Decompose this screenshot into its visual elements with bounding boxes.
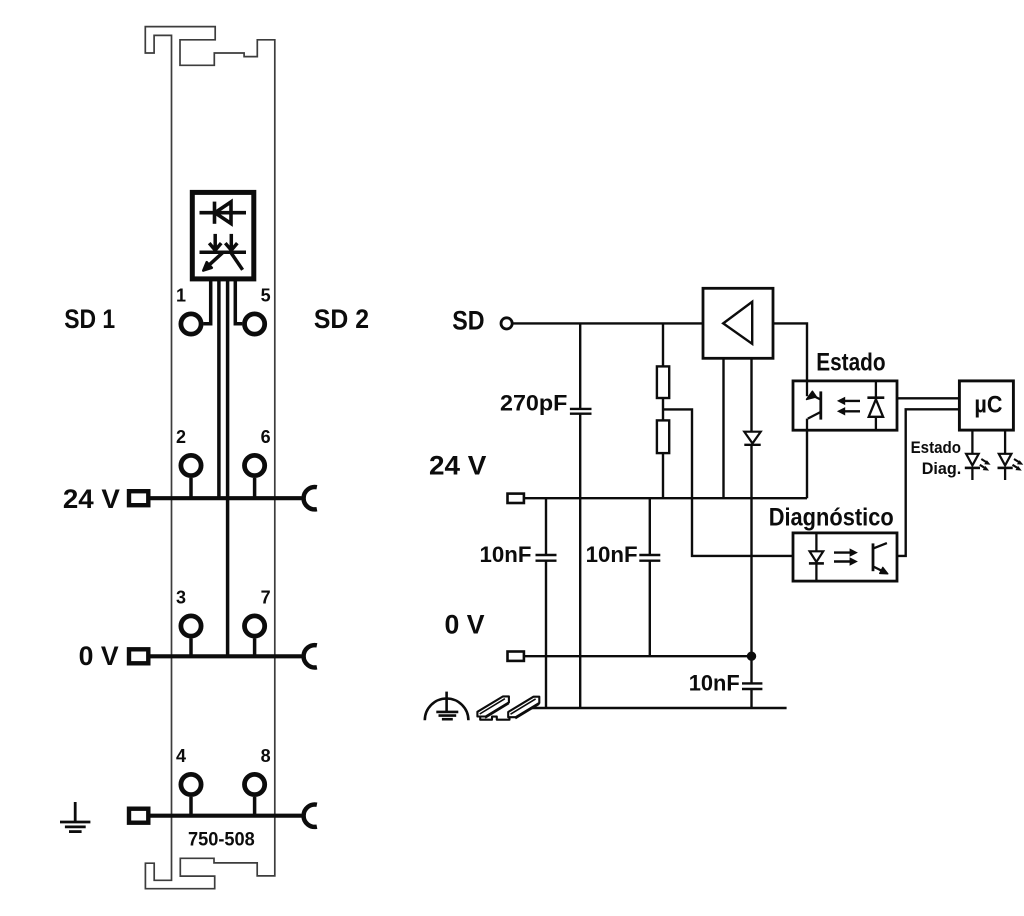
svg-text:10nF: 10nF [689,671,740,696]
Diagnostico light arrows [834,548,858,565]
svg-text:5: 5 [261,286,271,306]
op-amp triangle [723,302,752,344]
junction dot [747,652,756,661]
resistor R2 [657,420,669,453]
microcontroller uC box [959,381,1013,430]
svg-text:2: 2 [176,427,186,447]
capacitor 270pF [570,409,592,414]
0V rail on module [129,645,317,667]
op-amp U2 box [703,288,773,358]
optocoupler Estado box [793,381,897,430]
node SD input terminal [501,318,512,329]
svg-text:Estado: Estado [816,349,885,377]
capacitor 10nF#2 [639,555,660,561]
connector square 0V [508,652,524,661]
svg-text:µC: µC [974,391,1002,418]
terminal 2 [181,455,201,475]
wire 10nF#2 branch [649,498,651,656]
wire 270pF branch [579,323,581,708]
0V rail right [520,655,752,657]
LED Estado indicator [965,430,980,480]
surge suppressor box U1 [192,192,254,279]
svg-text:7: 7 [261,588,271,608]
wire Estado to uC [897,397,959,399]
wire amp bottom-right down [750,358,752,431]
svg-text:8: 8 [261,746,271,766]
wire tap to Diagnostico [663,409,793,556]
Diagnostico phototransistor [873,543,887,572]
svg-text:6: 6 [261,427,271,447]
pin numbers [176,286,271,767]
Diagnostico LED [809,533,824,581]
svg-text:1: 1 [176,286,186,306]
wire diode to 0V junction and below [750,445,752,683]
wire 10nF#1 branch [545,498,547,708]
suppressor symbol (two arrows onto bar + discharge arrows) [200,234,247,270]
svg-text:24 V: 24 V [63,484,120,514]
diode inside box (pointing left) [200,202,247,224]
svg-text:24 V: 24 V [429,451,486,481]
module outline 750-508 housing [145,27,274,889]
diode D1 [744,432,760,444]
svg-text:3: 3 [176,588,186,608]
optocoupler Diagnostico box [793,533,897,581]
LED Diag indicator [998,430,1013,480]
resistor R1 [657,366,669,398]
connector square 24V [508,494,524,503]
terminal 8 [245,774,265,794]
svg-text:0 V: 0 V [79,641,119,671]
wire R2 bottom to 24V rail [662,453,664,498]
terminal 7 [245,616,265,636]
svg-text:10nF: 10nF [586,542,638,567]
ground symbol left of PE rail [60,802,90,832]
svg-text:750-508: 750-508 [188,829,255,851]
terminal 5 [245,314,265,334]
terminal 1 [181,314,201,334]
wire uC to Diagnostico [897,409,959,556]
svg-text:Diag.: Diag. [922,460,962,478]
svg-text:0 V: 0 V [445,610,485,640]
Estado LED [867,381,884,430]
wire legs from box [203,279,242,656]
svg-text:4: 4 [176,746,186,766]
terminal 6 [245,455,265,475]
wire resistor branch top [662,323,664,366]
wire amp output to Estado [773,323,807,381]
svg-text:SD 2: SD 2 [314,304,369,334]
capacitor 10nF#3 [742,683,762,689]
svg-text:270pF: 270pF [500,391,567,416]
wire between resistors [662,398,664,420]
24V rail right [520,497,807,499]
svg-text:Diagnóstico: Diagnóstico [769,504,894,532]
svg-text:SD 1: SD 1 [64,304,115,334]
PE rail on module [129,805,317,827]
Estado phototransistor [807,381,821,430]
wire amp bottom-left to 24V rail [722,358,724,498]
terminal 3 [181,616,201,636]
terminal stems [191,478,255,816]
terminal 4 [181,774,201,794]
Estado light arrows [837,397,860,416]
capacitor 10nF#1 [536,555,557,561]
svg-text:Estado: Estado [911,439,961,457]
PE bottom rail right [528,707,787,709]
ground arc symbol [425,692,469,721]
24V rail on module [129,487,317,509]
DIN rail 3D symbol [477,696,539,719]
svg-text:SD: SD [452,305,484,335]
wire SD horizontal [512,322,703,324]
wire Estado emitter to 24V rail [806,430,808,498]
svg-text:10nF: 10nF [480,542,532,567]
